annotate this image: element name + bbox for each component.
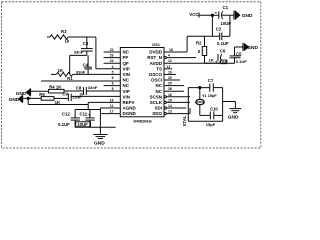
svg-text:SCSN: SCSN: [149, 94, 162, 99]
svg-text:RST_N: RST_N: [147, 55, 162, 60]
svg-text:Y1 15pF: Y1 15pF: [202, 94, 217, 98]
svg-text:QF: QF: [123, 61, 130, 66]
svg-text:12: 12: [168, 59, 172, 63]
svg-text:VIN: VIN: [123, 72, 131, 77]
svg-text:5: 5: [112, 70, 114, 74]
svg-text:R2: R2: [196, 41, 202, 46]
svg-text:NC: NC: [156, 89, 163, 94]
svg-text:REFV: REFV: [123, 100, 135, 105]
svg-text:NC: NC: [123, 78, 130, 83]
svg-text:23: 23: [110, 54, 114, 58]
svg-text:33nF: 33nF: [74, 49, 84, 54]
svg-text:0: 0: [198, 49, 201, 54]
svg-text:4: 4: [168, 54, 170, 58]
svg-text:GND: GND: [247, 45, 258, 51]
svg-text:GND: GND: [242, 13, 253, 19]
svg-text:22: 22: [110, 48, 114, 52]
svg-text:C6: C6: [220, 49, 226, 54]
svg-text:13: 13: [168, 110, 172, 114]
svg-text:KM8206G: KM8206G: [134, 118, 152, 123]
svg-text:NC: NC: [156, 83, 163, 88]
svg-text:19: 19: [168, 70, 172, 74]
svg-text:16: 16: [168, 93, 172, 97]
svg-text:DS1: DS1: [152, 42, 160, 47]
svg-text:15: 15: [168, 98, 172, 102]
svg-text:1k: 1k: [65, 38, 70, 43]
svg-text:R5: R5: [39, 92, 45, 97]
svg-text:OSCI: OSCI: [151, 78, 162, 83]
svg-text:20: 20: [168, 76, 172, 80]
svg-text:XTAL: XTAL: [182, 115, 187, 126]
svg-text:AGND: AGND: [123, 106, 137, 111]
svg-text:4: 4: [112, 65, 114, 69]
svg-text:SCLK: SCLK: [150, 100, 163, 105]
svg-text:16: 16: [110, 98, 114, 102]
svg-text:C2: C2: [216, 27, 222, 32]
svg-text:GND: GND: [16, 91, 27, 97]
svg-text:C9: C9: [62, 92, 68, 97]
svg-text:1K: 1K: [209, 57, 214, 62]
svg-text:R3: R3: [61, 29, 67, 34]
svg-text:C5: C5: [236, 51, 242, 56]
svg-text:0.1UF: 0.1UF: [58, 122, 70, 127]
svg-text:26: 26: [168, 87, 172, 91]
svg-text:C8: C8: [76, 85, 82, 90]
svg-text:11: 11: [110, 104, 114, 108]
svg-text:AVDD: AVDD: [150, 61, 163, 66]
svg-text:C12: C12: [62, 112, 70, 117]
svg-text:13: 13: [167, 65, 171, 69]
svg-text:17: 17: [110, 110, 114, 114]
svg-text:DVDD: DVDD: [149, 50, 163, 55]
svg-text:24: 24: [110, 59, 114, 63]
svg-text:GND: GND: [9, 97, 20, 103]
svg-text:25: 25: [168, 82, 172, 86]
svg-text:C1: C1: [223, 5, 229, 10]
svg-text:C4: C4: [83, 62, 89, 67]
svg-text:VIP: VIP: [123, 66, 130, 71]
svg-text:33nF: 33nF: [76, 70, 86, 75]
svg-text:0.1UF: 0.1UF: [217, 41, 229, 46]
svg-text:SDO: SDO: [152, 111, 162, 116]
svg-text:GND: GND: [228, 114, 239, 120]
svg-text:NC: NC: [123, 50, 130, 55]
svg-text:VIP: VIP: [123, 89, 130, 94]
svg-text:15pF: 15pF: [206, 122, 216, 127]
svg-text:GND: GND: [94, 141, 105, 147]
svg-text:VIN: VIN: [123, 94, 131, 99]
svg-text:TS: TS: [156, 66, 162, 71]
svg-text:NC: NC: [123, 83, 130, 88]
svg-text:14: 14: [168, 104, 172, 108]
svg-text:18: 18: [169, 48, 173, 52]
svg-text:8: 8: [112, 87, 114, 91]
svg-text:1K: 1K: [55, 100, 61, 105]
svg-text:9: 9: [112, 82, 114, 86]
svg-text:10UF: 10UF: [77, 122, 88, 127]
svg-text:C7: C7: [208, 78, 214, 83]
svg-text:C3: C3: [83, 41, 89, 46]
svg-text:1UF: 1UF: [221, 60, 227, 64]
svg-text:0.1UF: 0.1UF: [236, 59, 247, 64]
svg-text:PF: PF: [123, 55, 129, 60]
svg-text:10: 10: [79, 92, 83, 96]
svg-text:OSCO: OSCO: [149, 72, 163, 77]
svg-text:1K: 1K: [58, 68, 64, 73]
svg-text:33nF: 33nF: [88, 85, 98, 90]
svg-text:R1: R1: [67, 76, 73, 81]
svg-text:C10: C10: [210, 107, 218, 112]
svg-text:+: +: [215, 10, 218, 15]
svg-text:SDI: SDI: [154, 106, 162, 111]
svg-text:VCC: VCC: [189, 12, 199, 17]
svg-text:C11: C11: [80, 112, 88, 117]
svg-text:DGND: DGND: [123, 111, 137, 116]
svg-text:+: +: [88, 112, 91, 117]
svg-text:R4 1K: R4 1K: [49, 85, 62, 90]
svg-text:6: 6: [112, 76, 114, 80]
svg-text:10UF: 10UF: [221, 21, 232, 26]
